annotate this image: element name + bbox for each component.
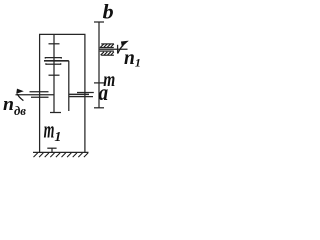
right shaft bottom tick	[94, 107, 104, 109]
belt drop vertical	[68, 61, 70, 111]
bearing axis line	[99, 48, 128, 50]
pulley top flange	[45, 57, 61, 59]
bottom support stem	[51, 148, 53, 152]
n1 arrow bar	[117, 45, 119, 54]
shaft A upper tick	[49, 43, 60, 45]
bearing top line	[100, 47, 114, 49]
svg-text:n1: n1	[124, 48, 141, 70]
right shaft top tick	[94, 21, 104, 23]
n_dv rotation arrow	[16, 89, 24, 101]
lower wheel line L2	[69, 96, 93, 98]
housing top edge	[39, 33, 86, 35]
lower wheel mid belt line	[69, 93, 89, 95]
bottom support tick	[47, 147, 56, 149]
right shaft b vertical	[98, 22, 100, 108]
input shaft line	[16, 94, 55, 96]
n1 rotation arrow	[118, 41, 129, 54]
bearing bottom hatch	[101, 52, 114, 55]
right shaft m tick	[94, 82, 104, 84]
shaft A lower tick	[49, 74, 60, 76]
svg-text:a: a	[99, 80, 109, 105]
ground line	[33, 151, 89, 153]
pulley right cap	[60, 57, 62, 59]
housing left wall	[39, 34, 41, 152]
worm bottom line	[31, 96, 49, 98]
shaft A bottom end tick	[50, 112, 61, 114]
bearing top hatch	[101, 44, 114, 47]
pulley bottom flange	[46, 63, 61, 65]
ground hatch	[34, 153, 89, 157]
worm top line	[30, 91, 49, 93]
svg-text:m1: m1	[44, 117, 62, 145]
svg-text:b: b	[103, 0, 114, 23]
svg-text:nдв: nдв	[3, 94, 26, 118]
bearing bottom line	[100, 50, 114, 52]
belt line	[44, 60, 69, 62]
pulley left cap	[44, 57, 46, 59]
lower wheel line L1	[77, 92, 94, 94]
housing right wall	[84, 34, 86, 152]
shaft A vertical	[53, 34, 55, 112]
